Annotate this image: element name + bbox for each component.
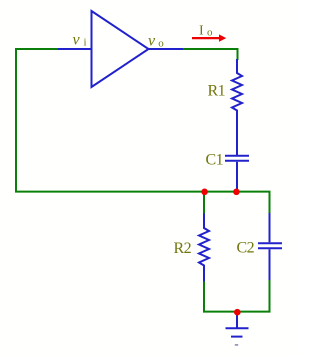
svg-text:v: v (148, 32, 156, 49)
svg-text:R1: R1 (208, 83, 226, 100)
svg-text:o: o (158, 37, 164, 49)
svg-text:C1: C1 (206, 152, 224, 169)
svg-text:o: o (207, 26, 213, 38)
svg-text:C2: C2 (237, 240, 255, 257)
svg-text:R2: R2 (174, 240, 192, 257)
svg-text:I: I (199, 24, 204, 39)
svg-text:v: v (73, 31, 81, 48)
svg-text:i: i (84, 37, 87, 49)
